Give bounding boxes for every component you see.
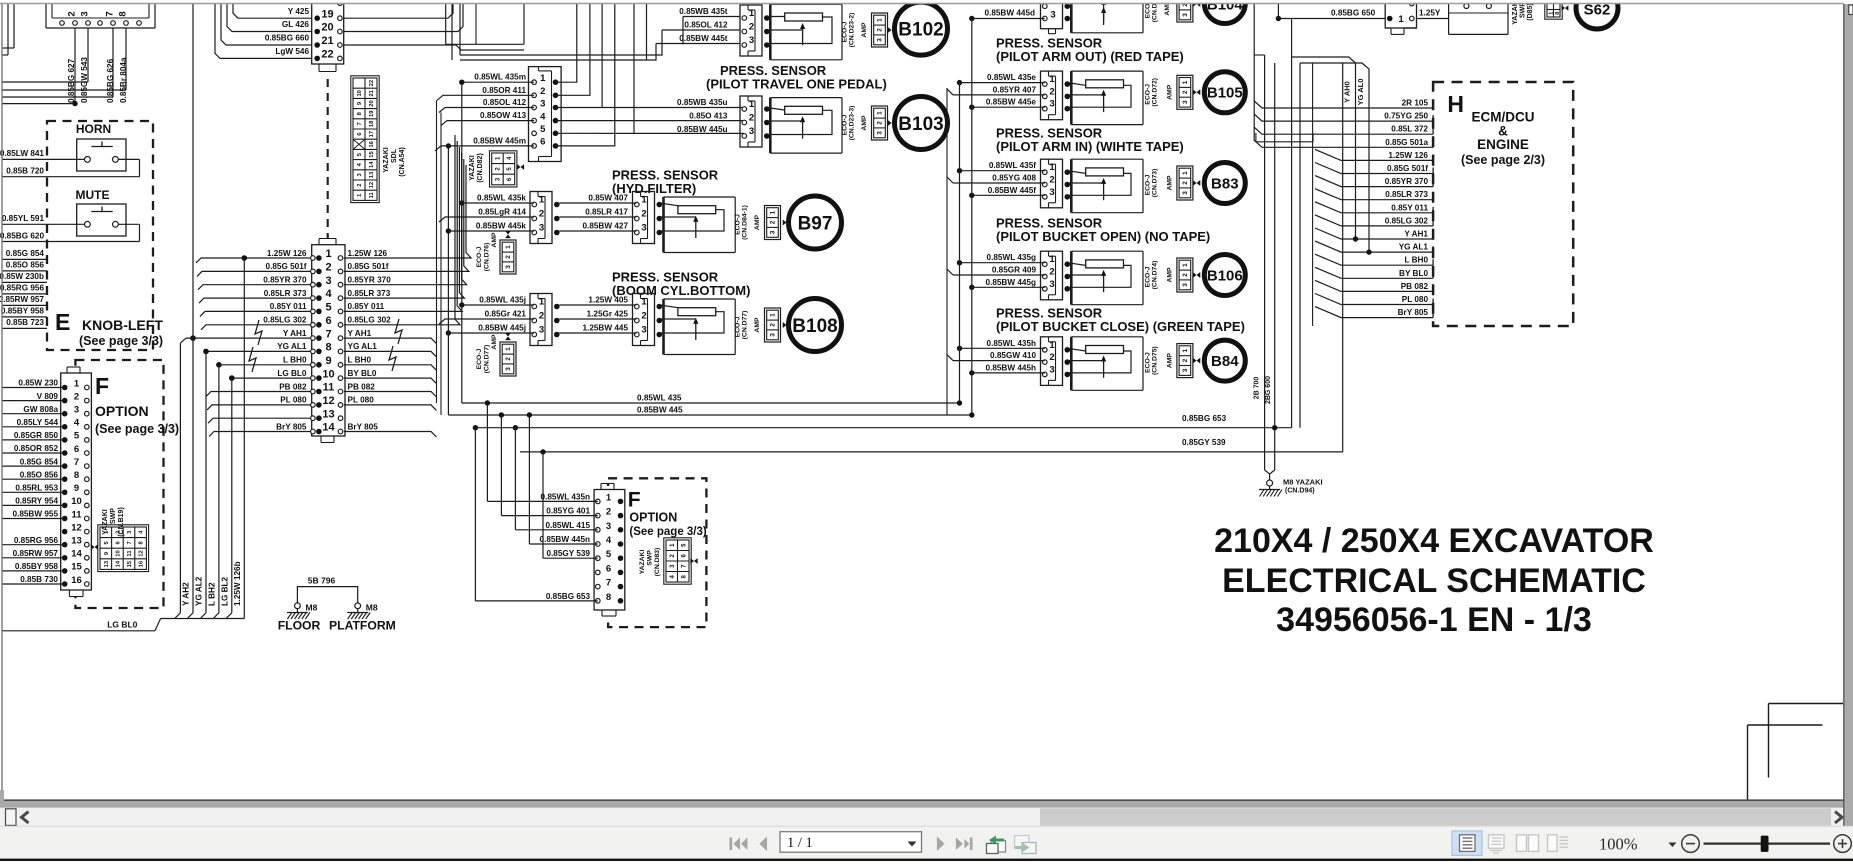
svg-text:20: 20 <box>321 22 333 34</box>
svg-text:2: 2 <box>505 255 512 259</box>
svg-text:0.85O 856: 0.85O 856 <box>20 470 59 479</box>
svg-text:0.85OR 852: 0.85OR 852 <box>14 444 59 453</box>
svg-text:3: 3 <box>1182 368 1189 372</box>
svg-text:0.85Y 011: 0.85Y 011 <box>348 302 385 311</box>
svg-text:0.85G 501f: 0.85G 501f <box>266 262 307 271</box>
svg-text:5: 5 <box>74 431 80 442</box>
svg-text:0.85BW 445k: 0.85BW 445k <box>476 222 527 231</box>
svg-text:1: 1 <box>1049 74 1055 85</box>
svg-text:0.85WL 435n: 0.85WL 435n <box>541 492 590 501</box>
svg-text:19: 19 <box>321 8 333 20</box>
svg-text:0.85WL 415: 0.85WL 415 <box>546 521 591 530</box>
svg-text:1: 1 <box>74 378 80 389</box>
svg-text:0.85WL 435e: 0.85WL 435e <box>987 73 1036 82</box>
svg-text:0.85WL 435: 0.85WL 435 <box>637 394 682 403</box>
svg-text:ECO-J: ECO-J <box>476 348 483 369</box>
svg-text:14: 14 <box>71 549 82 560</box>
svg-text:2: 2 <box>325 262 331 274</box>
svg-text:13: 13 <box>369 171 375 178</box>
svg-text:1: 1 <box>505 245 512 249</box>
svg-text:5: 5 <box>606 549 612 560</box>
svg-text:7: 7 <box>325 328 331 340</box>
svg-text:0.85BG 653: 0.85BG 653 <box>1182 414 1227 423</box>
svg-text:(See page 3/3): (See page 3/3) <box>79 334 163 348</box>
svg-text:0.85WB 435t: 0.85WB 435t <box>679 7 728 16</box>
svg-text:YG AL2: YG AL2 <box>195 576 204 606</box>
svg-text:0.85B 730: 0.85B 730 <box>20 575 58 584</box>
svg-text:0.85GR 409: 0.85GR 409 <box>992 266 1037 275</box>
svg-text:ECM/DCU: ECM/DCU <box>1472 110 1535 125</box>
svg-text:2: 2 <box>606 507 611 518</box>
svg-text:ECO-J: ECO-J <box>842 114 849 135</box>
svg-text:1: 1 <box>1049 340 1055 351</box>
svg-text:0.85BW 445u: 0.85BW 445u <box>677 125 728 134</box>
svg-text:3: 3 <box>80 11 91 16</box>
svg-text:AMP: AMP <box>1166 84 1173 100</box>
svg-text:1: 1 <box>1182 80 1189 84</box>
svg-text:SDL: SDL <box>391 148 398 163</box>
svg-text:21: 21 <box>369 89 375 96</box>
svg-text:4: 4 <box>540 111 546 122</box>
svg-text:0.85LR 417: 0.85LR 417 <box>585 208 628 217</box>
svg-text:B97: B97 <box>798 213 833 234</box>
svg-text:2: 2 <box>540 86 545 97</box>
svg-text:(CN.D72): (CN.D72) <box>1152 78 1159 107</box>
svg-text:ENGINE: ENGINE <box>1477 137 1529 152</box>
svg-text:(CN.D82): (CN.D82) <box>477 153 484 183</box>
svg-text:0.85BG 626: 0.85BG 626 <box>106 58 115 103</box>
svg-text:0.85LG 302: 0.85LG 302 <box>348 316 392 325</box>
svg-text:15: 15 <box>369 151 375 158</box>
svg-text:10: 10 <box>71 496 82 507</box>
svg-text:2B 700: 2B 700 <box>1254 377 1261 400</box>
svg-text:11: 11 <box>323 382 335 394</box>
svg-text:(D85): (D85) <box>1527 3 1534 21</box>
svg-text:3: 3 <box>74 405 79 416</box>
svg-text:3: 3 <box>749 35 754 46</box>
svg-text:1: 1 <box>749 8 755 19</box>
svg-text:1: 1 <box>641 195 647 206</box>
svg-text:7: 7 <box>74 457 79 468</box>
svg-text:17: 17 <box>369 131 375 137</box>
svg-text:0.85W 230b: 0.85W 230b <box>0 272 44 281</box>
svg-text:1: 1 <box>770 210 777 214</box>
svg-text:2: 2 <box>749 113 754 124</box>
svg-text:FLOOR: FLOOR <box>278 619 321 633</box>
svg-text:AMP: AMP <box>861 115 868 131</box>
svg-text:1: 1 <box>1182 263 1189 267</box>
svg-text:1 / 1: 1 / 1 <box>787 835 813 851</box>
svg-text:H: H <box>1447 91 1464 117</box>
svg-text:4: 4 <box>74 418 80 429</box>
svg-text:0.85WL 435g: 0.85WL 435g <box>987 253 1036 262</box>
svg-text:0.85O 413: 0.85O 413 <box>689 112 728 121</box>
svg-text:1.25W 126: 1.25W 126 <box>1388 151 1428 160</box>
svg-text:10: 10 <box>357 90 363 96</box>
svg-text:0.85WL 435m: 0.85WL 435m <box>474 73 526 82</box>
svg-text:0.85BW 427: 0.85BW 427 <box>582 222 628 231</box>
svg-text:2: 2 <box>1182 90 1189 94</box>
svg-text:10: 10 <box>116 550 122 556</box>
svg-text:(See page 3/3): (See page 3/3) <box>95 422 179 436</box>
svg-text:0.85YR 370: 0.85YR 370 <box>348 276 392 285</box>
svg-text:0.85WL 435j: 0.85WL 435j <box>479 296 526 305</box>
svg-text:2: 2 <box>877 28 884 32</box>
svg-text:0.85Br 804a: 0.85Br 804a <box>119 57 128 103</box>
svg-text:(PILOT BUCKET CLOSE) (GREEN TA: (PILOT BUCKET CLOSE) (GREEN TAPE) <box>996 319 1245 334</box>
svg-text:0.85Y 011: 0.85Y 011 <box>1391 203 1428 212</box>
svg-text:PL 080: PL 080 <box>280 396 307 405</box>
svg-text:(CN.D84-1): (CN.D84-1) <box>742 205 749 240</box>
svg-text:18: 18 <box>369 120 375 127</box>
svg-text:2: 2 <box>1182 273 1189 277</box>
svg-text:0.85Gr 421: 0.85Gr 421 <box>485 310 527 319</box>
svg-text:13: 13 <box>322 408 334 420</box>
svg-text:6: 6 <box>507 177 513 181</box>
svg-text:4: 4 <box>325 288 332 300</box>
svg-text:0.85LR 373: 0.85LR 373 <box>264 289 307 298</box>
svg-text:3: 3 <box>539 325 544 336</box>
svg-text:3: 3 <box>877 131 884 135</box>
svg-text:(See page 3/3): (See page 3/3) <box>629 526 707 538</box>
svg-text:LG BL2: LG BL2 <box>220 576 229 606</box>
svg-text:V 809: V 809 <box>37 392 59 401</box>
svg-text:YG AL0: YG AL0 <box>1356 79 1365 106</box>
svg-text:0.85LR 373: 0.85LR 373 <box>1385 190 1428 199</box>
svg-text:LG BL0: LG BL0 <box>107 620 137 630</box>
svg-text:YG AL1: YG AL1 <box>348 342 378 351</box>
svg-text:BrY 805: BrY 805 <box>276 422 307 431</box>
svg-text:16: 16 <box>71 575 82 586</box>
svg-text:1: 1 <box>539 297 545 308</box>
svg-text:1: 1 <box>1049 254 1055 265</box>
svg-text:0.85BG 660: 0.85BG 660 <box>265 34 310 43</box>
svg-text:0.85W 230: 0.85W 230 <box>18 379 58 388</box>
svg-text:YAZAKI: YAZAKI <box>469 155 476 180</box>
svg-text:1: 1 <box>877 111 884 115</box>
svg-text:1: 1 <box>1182 348 1189 352</box>
svg-text:B102: B102 <box>898 19 943 40</box>
svg-text:2BG 600: 2BG 600 <box>1265 376 1272 404</box>
svg-text:0.85YR 370: 0.85YR 370 <box>1385 177 1429 186</box>
svg-text:0.85O 856: 0.85O 856 <box>6 261 45 270</box>
svg-text:4: 4 <box>606 535 612 546</box>
svg-text:0.85RG 956: 0.85RG 956 <box>14 536 59 545</box>
svg-text:0.85YR 407: 0.85YR 407 <box>993 85 1037 94</box>
svg-text:1.25W 126: 1.25W 126 <box>267 249 307 258</box>
svg-text:0.85G 501f: 0.85G 501f <box>348 262 389 271</box>
svg-text:12: 12 <box>139 550 145 556</box>
svg-text:19: 19 <box>369 110 375 117</box>
svg-text:Y AH1: Y AH1 <box>283 329 307 338</box>
svg-text:9: 9 <box>74 483 79 494</box>
svg-text:22: 22 <box>321 49 333 61</box>
svg-text:6: 6 <box>540 137 545 148</box>
svg-text:3: 3 <box>325 275 331 287</box>
svg-text:0.85G 501a: 0.85G 501a <box>1385 138 1428 147</box>
svg-text:2: 2 <box>505 357 512 361</box>
svg-text:11: 11 <box>127 550 133 557</box>
svg-text:2: 2 <box>641 209 646 220</box>
svg-text:0.85L 372: 0.85L 372 <box>1391 125 1428 134</box>
svg-text:M8 YAZAKI: M8 YAZAKI <box>1283 478 1323 487</box>
svg-text:0.85BW 445d: 0.85BW 445d <box>984 9 1035 18</box>
svg-text:OPTION: OPTION <box>95 403 149 419</box>
svg-text:3: 3 <box>1182 191 1189 195</box>
svg-text:(CN.D76): (CN.D76) <box>484 243 491 272</box>
svg-text:OPTION: OPTION <box>629 511 677 525</box>
svg-text:1: 1 <box>325 248 331 260</box>
svg-text:Y AH1: Y AH1 <box>348 329 372 338</box>
svg-text:8: 8 <box>606 592 611 603</box>
svg-text:12: 12 <box>369 182 375 188</box>
svg-text:ELECTRICAL SCHEMATIC: ELECTRICAL SCHEMATIC <box>1222 562 1646 600</box>
svg-text:ECO-J: ECO-J <box>1145 266 1152 287</box>
svg-text:0.85GR 850: 0.85GR 850 <box>14 431 59 440</box>
svg-text:(PILOT BUCKET OPEN) (NO TAPE): (PILOT BUCKET OPEN) (NO TAPE) <box>996 229 1210 244</box>
svg-text:3: 3 <box>539 223 544 234</box>
svg-text:3: 3 <box>641 325 646 336</box>
svg-text:BY BL0: BY BL0 <box>1399 269 1428 278</box>
svg-text:1: 1 <box>606 492 612 503</box>
svg-text:(CN.D77): (CN.D77) <box>484 345 491 374</box>
svg-text:B83: B83 <box>1211 175 1239 192</box>
svg-text:PL 080: PL 080 <box>1402 295 1429 304</box>
svg-text:0.85G 501f: 0.85G 501f <box>1387 164 1428 173</box>
svg-text:11: 11 <box>369 191 375 198</box>
svg-text:7: 7 <box>606 578 611 589</box>
svg-text:ECO-J: ECO-J <box>1145 174 1152 195</box>
svg-text:1: 1 <box>1182 171 1189 175</box>
svg-text:0.85B 723: 0.85B 723 <box>6 318 44 327</box>
svg-text:2: 2 <box>357 183 363 186</box>
svg-text:0.85W 407: 0.85W 407 <box>588 194 628 203</box>
svg-text:7: 7 <box>127 541 133 544</box>
svg-text:M8: M8 <box>366 603 378 613</box>
svg-text:8: 8 <box>118 11 129 16</box>
svg-text:0.85WL 435k: 0.85WL 435k <box>477 194 526 203</box>
svg-text:0.85OL 412: 0.85OL 412 <box>483 98 527 107</box>
svg-text:(See page 2/3): (See page 2/3) <box>1461 153 1545 167</box>
svg-text:0.85BY 958: 0.85BY 958 <box>15 562 59 571</box>
svg-text:AMP: AMP <box>754 214 761 230</box>
svg-text:100%: 100% <box>1599 835 1638 854</box>
svg-text:MUTE: MUTE <box>76 188 110 202</box>
svg-text:1.25W 126: 1.25W 126 <box>348 249 388 258</box>
svg-text:BY BL0: BY BL0 <box>348 369 377 378</box>
svg-text:B84: B84 <box>1211 353 1239 370</box>
svg-text:0.75YG 250: 0.75YG 250 <box>1384 112 1428 121</box>
svg-text:2: 2 <box>770 220 777 224</box>
svg-text:3: 3 <box>1049 364 1054 375</box>
svg-text:0.85BG 620: 0.85BG 620 <box>0 232 44 241</box>
svg-text:2: 2 <box>749 22 754 33</box>
svg-text:0.85LY 544: 0.85LY 544 <box>17 418 59 427</box>
svg-text:2: 2 <box>67 11 78 16</box>
svg-text:14: 14 <box>369 161 375 168</box>
svg-text:SWP: SWP <box>110 508 117 524</box>
svg-text:0.85BW 445n: 0.85BW 445n <box>539 535 590 544</box>
svg-text:0.85RL 953: 0.85RL 953 <box>15 484 58 493</box>
svg-text:0.85RW 957: 0.85RW 957 <box>13 549 59 558</box>
svg-text:GW 808a: GW 808a <box>23 405 58 414</box>
svg-text:0.85G 854: 0.85G 854 <box>6 249 45 258</box>
svg-text:0.85BW 445t: 0.85BW 445t <box>679 34 728 43</box>
svg-text:0.85LR 373: 0.85LR 373 <box>348 289 391 298</box>
svg-text:2: 2 <box>1182 358 1189 362</box>
svg-text:B103: B103 <box>898 114 943 135</box>
svg-text:1.25W 126b: 1.25W 126b <box>233 561 242 606</box>
svg-text:0.85BW 445h: 0.85BW 445h <box>985 363 1036 372</box>
svg-text:(PILOT TRAVEL ONE PEDAL): (PILOT TRAVEL ONE PEDAL) <box>706 77 887 92</box>
svg-text:12: 12 <box>71 522 82 533</box>
svg-text:2: 2 <box>1049 86 1054 97</box>
svg-text:ECO-J: ECO-J <box>735 214 742 235</box>
svg-text:0.85G 854: 0.85G 854 <box>20 457 59 466</box>
svg-text:3: 3 <box>1049 99 1054 110</box>
svg-text:7: 7 <box>105 11 116 16</box>
svg-text:3: 3 <box>1049 279 1054 290</box>
svg-text:0.85B 720: 0.85B 720 <box>6 167 44 176</box>
svg-text:3: 3 <box>505 367 512 371</box>
svg-text:KNOB-LEFT: KNOB-LEFT <box>82 317 163 333</box>
svg-text:3: 3 <box>1182 100 1189 104</box>
svg-text:3: 3 <box>1049 187 1054 198</box>
svg-text:3: 3 <box>641 223 646 234</box>
svg-text:1: 1 <box>540 73 546 84</box>
svg-text:B106: B106 <box>1207 267 1243 284</box>
svg-text:3: 3 <box>770 230 777 234</box>
svg-text:0.85RW 957: 0.85RW 957 <box>0 295 44 304</box>
svg-text:1.25Y: 1.25Y <box>1419 9 1441 18</box>
svg-text:Y AH0: Y AH0 <box>1343 81 1352 103</box>
svg-text:YG AL1: YG AL1 <box>1399 243 1429 252</box>
svg-text:8: 8 <box>325 342 331 354</box>
svg-text:3: 3 <box>505 265 512 269</box>
svg-text:0.85BG 653: 0.85BG 653 <box>546 592 591 601</box>
svg-text:0.85LgR 414: 0.85LgR 414 <box>478 208 526 217</box>
svg-text:ECO-J: ECO-J <box>476 246 483 267</box>
svg-text:0.85GW 410: 0.85GW 410 <box>990 351 1036 360</box>
svg-text:12: 12 <box>322 395 334 407</box>
svg-text:2: 2 <box>641 311 646 322</box>
svg-text:BrY 805: BrY 805 <box>348 422 379 431</box>
svg-text:1: 1 <box>1398 14 1404 25</box>
svg-text:L BH0: L BH0 <box>1404 256 1428 265</box>
svg-text:BrY 805: BrY 805 <box>1398 308 1429 317</box>
svg-text:0.85YR 370: 0.85YR 370 <box>263 276 307 285</box>
svg-text:L BH0: L BH0 <box>348 356 372 365</box>
svg-text:0.85BW 445g: 0.85BW 445g <box>985 278 1036 287</box>
svg-text:AMP: AMP <box>861 22 868 38</box>
svg-text:L BH0: L BH0 <box>283 356 307 365</box>
svg-text:7: 7 <box>357 122 363 125</box>
svg-text:L BH2: L BH2 <box>207 582 216 606</box>
svg-text:0.85YL 591: 0.85YL 591 <box>2 214 45 223</box>
svg-text:1: 1 <box>877 18 884 22</box>
svg-text:PLATFORM: PLATFORM <box>329 619 396 633</box>
svg-text:(CN.D23-3): (CN.D23-3) <box>849 106 856 141</box>
svg-text:2: 2 <box>539 209 544 220</box>
svg-text:16: 16 <box>369 140 375 147</box>
svg-text:LG BL0: LG BL0 <box>277 369 307 378</box>
svg-text:2: 2 <box>116 531 122 534</box>
svg-text:1.25Gr 425: 1.25Gr 425 <box>587 310 629 319</box>
svg-text:14: 14 <box>322 422 335 434</box>
svg-text:Y 425: Y 425 <box>288 7 310 16</box>
svg-text:PB 082: PB 082 <box>279 382 307 391</box>
svg-text:5B 796: 5B 796 <box>308 576 336 586</box>
svg-text:(CN.D83): (CN.D83) <box>654 548 661 577</box>
svg-text:Y AH2: Y AH2 <box>182 582 191 606</box>
svg-text:0.85BY 958: 0.85BY 958 <box>1 307 45 316</box>
svg-text:3: 3 <box>540 98 545 109</box>
svg-text:AMP: AMP <box>1166 267 1173 283</box>
svg-text:13: 13 <box>71 536 82 547</box>
svg-text:9: 9 <box>325 355 331 367</box>
svg-text:0.85WB 435u: 0.85WB 435u <box>677 98 728 107</box>
svg-text:HORN: HORN <box>76 122 111 136</box>
svg-text:0.85OW 413: 0.85OW 413 <box>480 111 526 120</box>
svg-text:15: 15 <box>127 560 133 567</box>
svg-text:1: 1 <box>749 99 755 110</box>
svg-text:13: 13 <box>104 560 110 567</box>
svg-text:1: 1 <box>770 313 777 317</box>
svg-text:5: 5 <box>540 124 546 135</box>
svg-text:AMP: AMP <box>1166 175 1173 191</box>
svg-text:ECO-J: ECO-J <box>842 21 849 42</box>
svg-text:ECO-J: ECO-J <box>1145 352 1152 373</box>
svg-text:PB 082: PB 082 <box>1401 282 1429 291</box>
svg-text:0.85BW 955: 0.85BW 955 <box>12 510 58 519</box>
svg-text:(CN.D77): (CN.D77) <box>742 311 749 340</box>
svg-text:YG AL1: YG AL1 <box>277 342 307 351</box>
svg-text:0.85RY 954: 0.85RY 954 <box>15 497 58 506</box>
svg-text:14: 14 <box>116 560 122 567</box>
svg-text:YAZAKI: YAZAKI <box>383 147 390 172</box>
svg-text:2: 2 <box>74 391 79 402</box>
svg-text:3: 3 <box>1182 13 1189 17</box>
svg-text:2: 2 <box>539 311 544 322</box>
svg-text:SWP: SWP <box>647 550 654 566</box>
svg-text:YAZAKI: YAZAKI <box>639 550 646 575</box>
svg-text:AMP: AMP <box>491 334 498 350</box>
svg-text:6: 6 <box>606 563 611 574</box>
svg-text:(CN.A54): (CN.A54) <box>399 147 406 177</box>
svg-text:0.85LG 302: 0.85LG 302 <box>1385 216 1429 225</box>
svg-text:(CN.D73): (CN.D73) <box>1152 169 1159 198</box>
svg-text:0.85WL 435f: 0.85WL 435f <box>989 161 1036 170</box>
svg-text:2R 105: 2R 105 <box>1402 99 1429 108</box>
svg-text:34956056-1 EN - 1/3: 34956056-1 EN - 1/3 <box>1276 601 1592 639</box>
svg-text:0.85LW 841: 0.85LW 841 <box>0 149 44 158</box>
svg-text:22: 22 <box>369 80 375 86</box>
svg-text:1: 1 <box>1548 12 1554 15</box>
svg-text:0.85YG 408: 0.85YG 408 <box>992 174 1036 183</box>
svg-text:B105: B105 <box>1207 85 1243 102</box>
svg-text:(CN.D23-2): (CN.D23-2) <box>849 13 856 48</box>
svg-text:1.25W 405: 1.25W 405 <box>588 296 628 305</box>
svg-text:3: 3 <box>749 126 754 137</box>
svg-text:2: 2 <box>1049 267 1054 278</box>
svg-text:20: 20 <box>369 100 375 106</box>
svg-text:AMP: AMP <box>1166 353 1173 369</box>
svg-text:0.85OL 412: 0.85OL 412 <box>684 21 728 30</box>
svg-text:3: 3 <box>1182 283 1189 287</box>
svg-text:15: 15 <box>71 562 82 573</box>
svg-text:1: 1 <box>539 195 545 206</box>
svg-text:AMP: AMP <box>754 317 761 333</box>
